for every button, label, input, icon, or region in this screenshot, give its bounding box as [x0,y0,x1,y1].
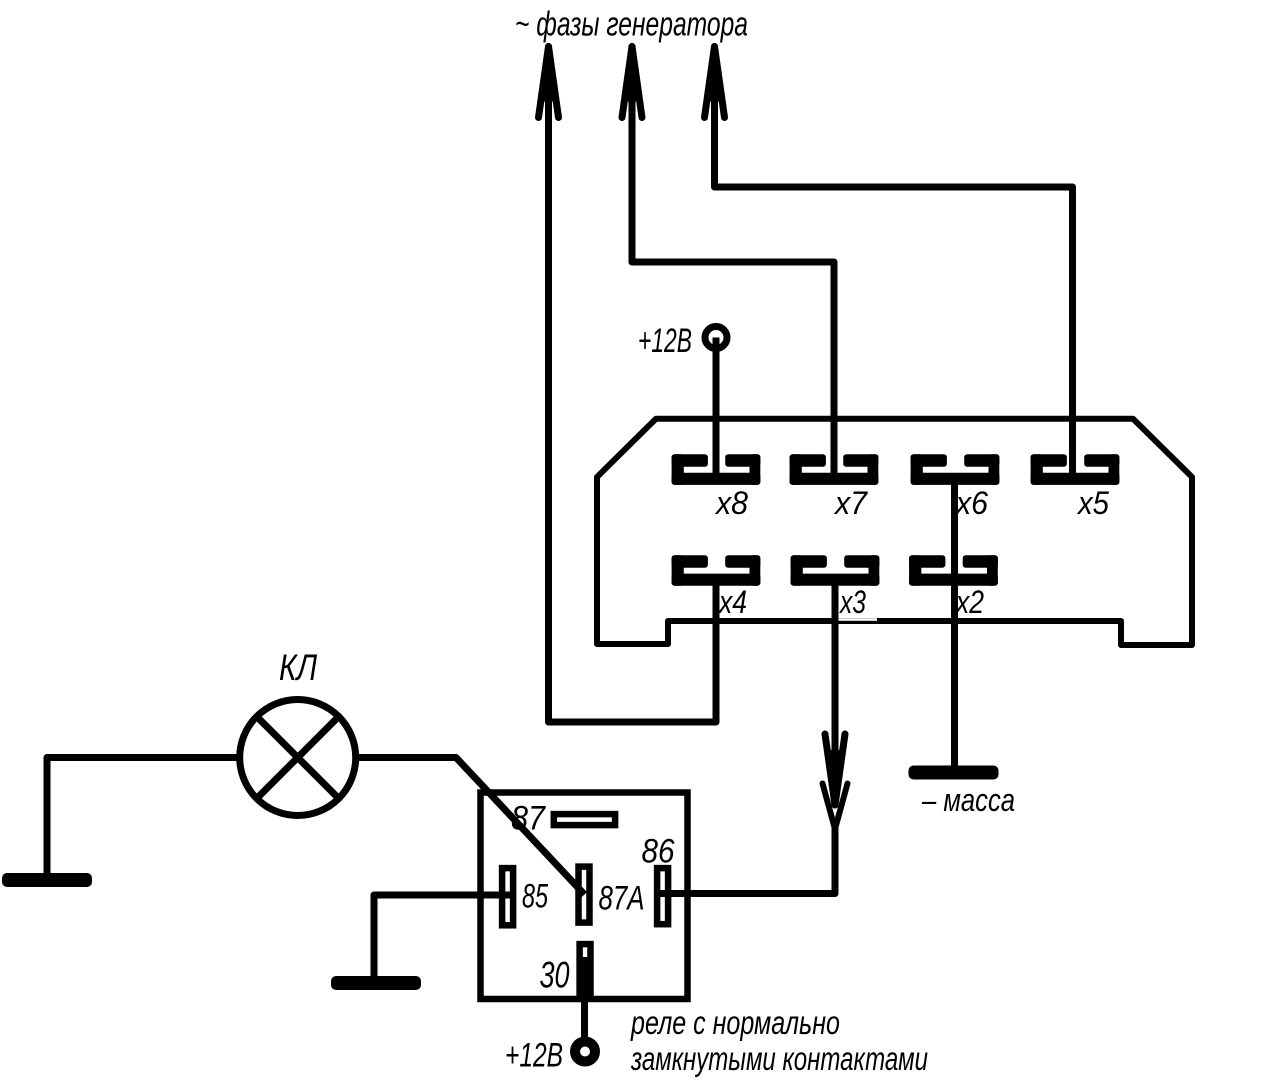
arrowhead down on x3 wire [825,734,845,805]
relay pin 86 slot [657,868,668,924]
svg-text:замкнутыми контактами: замкнутыми контактами [630,1040,928,1077]
wire phase1: pin x4 down, left, up to arrow [549,50,717,722]
arrowhead phase3 [705,47,725,118]
lamp КЛ circle [240,700,356,816]
ground symbol (lamp) [2,873,92,887]
relay pin 30 slot [580,944,591,994]
wire 30 to +12В [581,957,588,1043]
terminal +12В top circle [705,327,727,349]
pin x8 [672,454,761,485]
connector X1 outline [597,419,1192,645]
svg-text:+12В: +12В [505,1037,563,1075]
svg-text:х2: х2 [954,584,984,620]
pin x6 [911,454,1000,485]
relay pin 87A slot [579,867,590,923]
wire x6 to ground [951,478,958,772]
pin x2 [909,555,998,586]
relay pin 85 slot [502,868,513,925]
svg-text:КЛ: КЛ [279,647,318,688]
pin x4 [672,555,761,586]
svg-text:– масса: – масса [921,782,1015,818]
pin x5 [1031,454,1120,485]
wire lamp to relay contact (diagonal) [356,758,585,895]
chevron arrowhead down [823,784,848,830]
svg-text:х3: х3 [838,584,866,620]
svg-text:х4: х4 [717,584,747,620]
svg-text:87: 87 [511,800,546,838]
svg-text:87А: 87А [599,880,645,918]
wire lamp to ground [47,758,240,878]
wire x3 down to arrow [832,582,839,800]
svg-text:85: 85 [522,878,548,916]
svg-text:х5: х5 [1076,485,1109,521]
svg-text:х7: х7 [833,485,868,521]
wire +12В to pin x8 [713,338,720,479]
ground symbol масса [909,766,999,780]
bottom edge notch artifact [836,618,878,621]
wire phase2: pin x7 up, left, up to arrow [632,50,834,478]
wire 86 stub into slot [660,890,668,897]
terminal +12В bottom circle [575,1042,595,1062]
lamp cross [255,715,340,800]
pin x3 [791,555,880,586]
arrowhead phase2 [622,47,642,118]
svg-text:х8: х8 [714,485,748,521]
svg-text:+12В: +12В [638,322,692,360]
wire x3 arrow to relay pin 86 [660,828,835,894]
ground symbol (relay 85) [331,976,421,990]
svg-text:86: 86 [642,833,675,871]
relay pin 87 slot [554,814,615,825]
pin x7 [790,454,879,485]
relay box [481,793,688,1000]
arrowhead phase1 [539,47,559,118]
svg-text:~ фазы генератора: ~ фазы генератора [515,6,748,44]
wire phase3: pin x5 up, left, up to arrow [715,50,1073,478]
svg-text:х6: х6 [954,485,988,521]
wire 85 to ground [374,895,512,980]
svg-text:30: 30 [540,955,570,996]
svg-text:реле с нормально: реле с нормально [630,1004,840,1041]
